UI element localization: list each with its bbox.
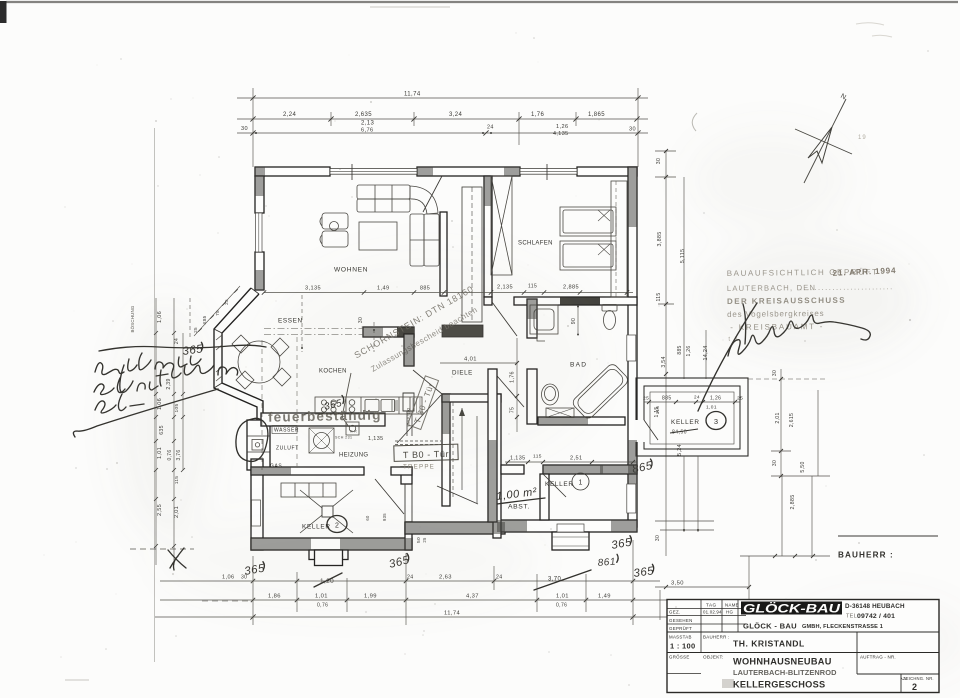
wall KELLER1 top <box>501 465 524 474</box>
svg-text:11,74: 11,74 <box>404 92 421 98</box>
boiler <box>309 428 334 453</box>
svg-text:ZEICHNG. NR.: ZEICHNG. NR. <box>903 676 934 681</box>
window top-right (SCHLAFEN) <box>520 169 577 175</box>
wall vertical kitchen/corridor <box>404 334 414 366</box>
sofa back (top wall) <box>357 185 410 199</box>
chairs diamonds <box>232 335 250 353</box>
scan speckles <box>334 120 336 122</box>
svg-text:3,54: 3,54 <box>661 356 667 367</box>
wall kitchen/WOHNEN segment <box>363 327 414 337</box>
stamp T30 rotated <box>408 376 439 430</box>
svg-text:1,865: 1,865 <box>588 112 605 118</box>
dim 90 BAD <box>577 306 579 335</box>
svg-text:3,885: 3,885 <box>657 232 663 247</box>
hatch in bay wall <box>216 335 222 381</box>
svg-text:GAS: GAS <box>270 464 282 470</box>
svg-text:24: 24 <box>694 395 700 400</box>
wall corridor/BAD left <box>527 299 537 338</box>
KELLER3 interior dims <box>644 401 740 403</box>
dimension top row 2 <box>237 132 648 134</box>
dining table round <box>238 341 280 383</box>
shower <box>530 305 558 334</box>
stamp pointer to stove <box>342 373 351 427</box>
bottom vertical guides <box>253 540 660 625</box>
svg-text:19: 19 <box>858 135 867 141</box>
bottom dims row1 <box>160 580 660 582</box>
sofa right <box>410 214 424 266</box>
svg-text:WOHNHAUSNEUBAU: WOHNHAUSNEUBAU <box>733 657 832 667</box>
sofa corner curve <box>410 186 438 214</box>
handwriting pointer line KELLER3 to signature <box>698 303 757 411</box>
bottom dims row3 <box>155 616 667 618</box>
bed 2 <box>560 241 616 270</box>
stamp T B0 Tuer box <box>394 444 458 461</box>
scan gray wash (blurred) <box>0 0 1 1</box>
handwriting big oval WASSER area <box>236 418 268 461</box>
north arrow <box>804 99 846 183</box>
svg-text:30: 30 <box>772 370 778 376</box>
handwriting pointer curve <box>73 389 218 437</box>
door hatch kitchen <box>392 400 397 411</box>
svg-text:3,50: 3,50 <box>671 581 684 587</box>
svg-text:LAUTERBACH-BLITZENROD: LAUTERBACH-BLITZENROD <box>733 668 837 677</box>
svg-text:1,135: 1,135 <box>510 456 526 462</box>
wash basin <box>542 384 559 405</box>
wall bay diagonal (ESSEN) <box>214 288 257 420</box>
title block inner lines <box>667 631 939 633</box>
svg-text:1,26: 1,26 <box>556 124 569 130</box>
svg-text:GEPRÜFT: GEPRÜFT <box>669 626 692 631</box>
kellergeschoss <box>722 679 734 688</box>
logo GLOECK-BAU <box>741 602 842 615</box>
dims above title block <box>782 476 812 556</box>
svg-text:885: 885 <box>677 345 683 354</box>
svg-text:WASSER: WASSER <box>274 428 299 434</box>
closet row KELLER2 <box>281 483 336 497</box>
dims interior row <box>264 292 633 294</box>
sink double <box>365 400 379 412</box>
svg-text:09742 / 401: 09742 / 401 <box>857 613 895 620</box>
KELLER3 door gap <box>635 420 646 442</box>
handwriting overline wavy <box>99 345 266 351</box>
svg-text:2,01: 2,01 <box>775 412 781 423</box>
svg-text:D-36148 HEUBACH: D-36148 HEUBACH <box>845 603 905 610</box>
bathtub rotated <box>571 362 630 420</box>
svg-text:TAG: TAG <box>706 603 717 608</box>
faint bottom-left mark <box>65 679 89 681</box>
svg-text:3,24: 3,24 <box>449 112 463 118</box>
wall ABST/KELLER1 divider <box>540 474 549 520</box>
door swings BAD/corridor <box>492 302 517 336</box>
faint property line left <box>154 128 156 662</box>
mini dims near bay <box>301 295 303 352</box>
svg-text:OBJEKT:: OBJEKT: <box>703 655 724 660</box>
scan top edge line <box>6 1 958 3</box>
svg-text:14,24: 14,24 <box>703 346 709 361</box>
svg-text:25: 25 <box>737 396 743 402</box>
bed 1 <box>560 207 616 236</box>
svg-text:KELLERGESCHOSS: KELLERGESCHOSS <box>733 680 825 690</box>
coffee table <box>359 222 397 250</box>
svg-text:2,635: 2,635 <box>355 112 372 118</box>
svg-text:1 : 100: 1 : 100 <box>670 642 695 651</box>
svg-text:TH. KRISTANDL: TH. KRISTANDL <box>733 639 805 649</box>
svg-text:5,115: 5,115 <box>680 249 686 264</box>
faint top-right marks <box>856 23 892 37</box>
handwritten X mark <box>168 548 186 570</box>
closet strip right <box>611 181 627 297</box>
wardrobe with X <box>491 176 512 275</box>
dims KELLER1 top <box>505 461 637 463</box>
bottom dims row2 <box>160 599 667 601</box>
svg-text:1,01: 1,01 <box>556 594 569 600</box>
handwriting signature <box>743 304 746 344</box>
svg-text:2,51: 2,51 <box>570 456 583 462</box>
svg-text:BAUHERR :: BAUHERR : <box>703 635 730 640</box>
wall WOHNEN right + door <box>440 212 447 296</box>
stove burners <box>321 400 326 405</box>
left dim column verticals <box>155 298 157 565</box>
svg-text:4,135: 4,135 <box>553 131 569 137</box>
scan corner black mark <box>0 1 7 23</box>
wall right <box>628 167 637 527</box>
dashed guides ESSEN <box>262 337 297 470</box>
svg-text:115: 115 <box>533 454 542 460</box>
svg-text:30: 30 <box>629 127 636 133</box>
svg-text:KELLER: KELLER <box>671 419 700 426</box>
towel/mat X rect <box>546 408 574 418</box>
svg-text:24: 24 <box>487 125 494 131</box>
svg-text:HG: HG <box>726 610 733 615</box>
toilet <box>602 305 617 312</box>
dims below KELLER3 <box>684 456 698 532</box>
window bay below KELLER1 <box>552 532 589 550</box>
svg-text:1,01: 1,01 <box>706 405 717 411</box>
svg-text:11,74: 11,74 <box>444 611 460 617</box>
dims right of KELLER3 <box>748 378 828 380</box>
KELLER3 walls <box>636 378 748 456</box>
svg-text:MASSTAB: MASSTAB <box>669 635 692 640</box>
svg-text:30: 30 <box>241 126 248 132</box>
svg-text:5,50: 5,50 <box>800 461 806 472</box>
wall bottom right (KELLER1) <box>497 520 637 532</box>
svg-text:30: 30 <box>655 535 661 541</box>
wall left upper with window <box>255 176 264 213</box>
dashes horizontals left <box>130 548 194 550</box>
handwriting note 3 lines <box>95 353 201 375</box>
svg-text:AUFTRAG - NR.: AUFTRAG - NR. <box>860 655 896 660</box>
wall HEIZUNG bottom / KELLER2 top <box>251 467 364 475</box>
stair shaft U walls <box>442 394 450 506</box>
window right wall KELLER1 <box>627 484 636 513</box>
svg-text:1,49: 1,49 <box>598 594 611 600</box>
svg-text:6,76: 6,76 <box>361 128 374 134</box>
armchairs <box>322 213 348 229</box>
svg-text:30: 30 <box>656 158 662 164</box>
cross marker KELLER2 <box>300 490 353 533</box>
wall dark segment DIELE top <box>442 325 483 337</box>
title block frame <box>667 600 939 693</box>
closet WASSER/ZULUFT/GAS <box>247 420 270 470</box>
svg-text:01.02.94: 01.02.94 <box>703 610 722 615</box>
wall left of KELLER2 with window <box>251 459 263 550</box>
svg-text:GEZ.: GEZ. <box>669 610 680 615</box>
svg-text:0,76: 0,76 <box>556 603 567 609</box>
svg-text:885: 885 <box>662 396 672 402</box>
svg-text:GLÖCK-BAU: GLÖCK-BAU <box>743 601 840 616</box>
opening dash-dot kitchen <box>264 329 363 335</box>
svg-text:GLÖCK - BAU: GLÖCK - BAU <box>743 622 797 631</box>
duct shaft corridor <box>462 187 482 322</box>
svg-text:2,13: 2,13 <box>361 121 375 127</box>
door diag KELLER1 <box>543 474 566 497</box>
small device <box>346 422 359 435</box>
svg-text:2: 2 <box>912 682 917 692</box>
wall step bottom middle <box>405 522 412 550</box>
svg-text:ABST.: ABST. <box>508 504 530 511</box>
window right wall BAD <box>627 335 636 361</box>
svg-text:30: 30 <box>772 460 778 466</box>
dimension top overall 11,74 <box>237 97 648 99</box>
svg-text:1,76: 1,76 <box>531 112 545 118</box>
shaft interior dim arrows <box>462 408 477 503</box>
svg-text:1,26: 1,26 <box>686 346 692 357</box>
handwriting 1,00 m2 <box>496 486 538 503</box>
door swing DIELE <box>413 370 442 394</box>
left dim ticks <box>154 331 185 548</box>
svg-text:2,615: 2,615 <box>789 413 795 427</box>
wall top with windows <box>255 167 330 176</box>
faint arc blob <box>692 113 697 131</box>
svg-text:5,24: 5,24 <box>677 444 683 456</box>
svg-text:GRÖSSE: GRÖSSE <box>669 655 690 660</box>
svg-text:2,24: 2,24 <box>283 112 297 118</box>
wall BAD bottom <box>538 417 625 425</box>
svg-text:3: 3 <box>714 417 718 426</box>
BAUHERR <box>838 535 938 537</box>
stamp SCHORNSTEIN diagonal <box>352 284 475 361</box>
svg-text:115: 115 <box>655 406 661 415</box>
svg-text:X85: X85 <box>202 315 207 324</box>
wall SCHLAFEN left <box>484 176 492 297</box>
wall smudges <box>255 167 265 176</box>
svg-text:1,26: 1,26 <box>710 396 721 402</box>
svg-text:NAME: NAME <box>725 603 739 608</box>
wall bottom corridor <box>405 522 505 534</box>
svg-text:BAUHERR :: BAUHERR : <box>838 551 894 560</box>
wall SCHLAFEN bottom <box>484 297 492 305</box>
wall bottom KELLER2 <box>251 538 412 550</box>
svg-text:25: 25 <box>643 396 649 402</box>
wall pieces left of shaft <box>407 411 412 436</box>
svg-text:ZULUFT: ZULUFT <box>276 446 299 452</box>
svg-text:2,885: 2,885 <box>563 285 579 291</box>
right dim vertical main <box>665 150 667 556</box>
stamp BAUAUFSICHTLICH block <box>727 266 898 343</box>
ELEKTRO nook <box>403 393 414 411</box>
svg-text:GMBH, FLECKENSTRASSE 1: GMBH, FLECKENSTRASSE 1 <box>802 624 883 630</box>
svg-text:1: 1 <box>579 480 583 487</box>
door leaf KELLER2 <box>375 479 404 514</box>
svg-text:25: 25 <box>224 299 229 305</box>
svg-text:115: 115 <box>656 293 662 302</box>
window top-left (WOHNEN) <box>330 169 417 175</box>
chimney protrusion below <box>309 550 348 560</box>
door diag corridor bottom <box>437 486 478 504</box>
stamp feuerbestaendig <box>268 407 382 424</box>
svg-text:GESEHEN: GESEHEN <box>669 618 693 623</box>
threshold dashes <box>395 441 441 445</box>
handwriting 365 marks <box>182 342 204 358</box>
wall HEIZUNG top (feuerbestaendig) <box>261 413 385 426</box>
wall corridor left lower <box>488 369 497 522</box>
svg-text:2,885: 2,885 <box>790 495 796 510</box>
svg-text:861: 861 <box>597 556 616 569</box>
dimension top row segments <box>237 118 648 120</box>
svg-text:KELLER: KELLER <box>545 481 574 488</box>
kitchen counter <box>315 397 422 414</box>
svg-text:SCHLAFEN: SCHLAFEN <box>518 241 553 247</box>
